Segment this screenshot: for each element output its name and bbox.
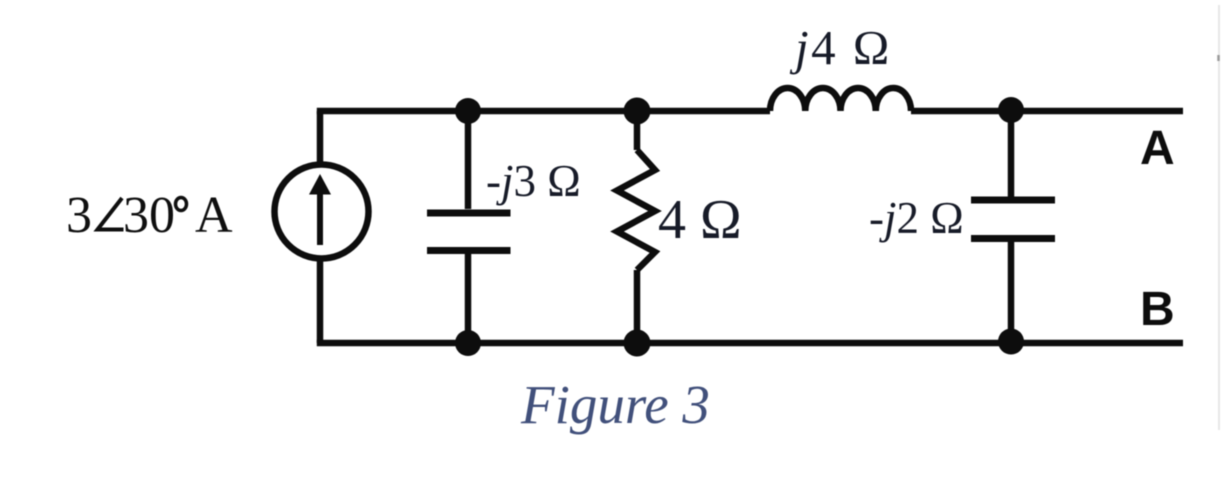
wire: top rail left segment [317,108,770,115]
svg-text:A: A [195,187,233,244]
node: bottom junction at capacitor C1 [455,330,481,356]
node: top junction at resistor R [624,98,651,125]
wire: top rail right segment [911,108,1183,115]
node: top junction at capacitor C1 [455,98,481,124]
svg-text:30: 30 [123,187,175,244]
svg-text:A: A [1140,122,1175,175]
svg-text:4 Ω: 4 Ω [658,189,742,251]
capacitor C1 (-j3 ohm) [427,111,511,343]
inductor L (j4 ohm) [770,88,911,111]
svg-text:B: B [1140,283,1175,336]
wire: source top lead [317,111,324,163]
svg-text:-j2 Ω: -j2 Ω [869,193,964,243]
current source I1 (3∠30° A) [275,165,369,259]
node: bottom junction at resistor R [624,330,651,357]
node: bottom junction at capacitor C2 [998,329,1024,355]
source value label 3∠30° A [66,187,233,244]
svg-text:Figure 3: Figure 3 [520,374,710,435]
svg-text:j4 Ω: j4 Ω [789,20,892,75]
svg-text:3: 3 [66,187,92,244]
page edge artifact line [1218,5,1220,430]
capacitor C2 (-j2 ohm) [971,110,1055,341]
wire: source bottom lead [317,261,324,343]
wire: bottom rail [317,340,1183,347]
node: top junction at capacitor C2 [998,97,1024,123]
resistor R (4 ohm) [617,111,655,343]
svg-text:-j3 Ω: -j3 Ω [486,156,581,206]
